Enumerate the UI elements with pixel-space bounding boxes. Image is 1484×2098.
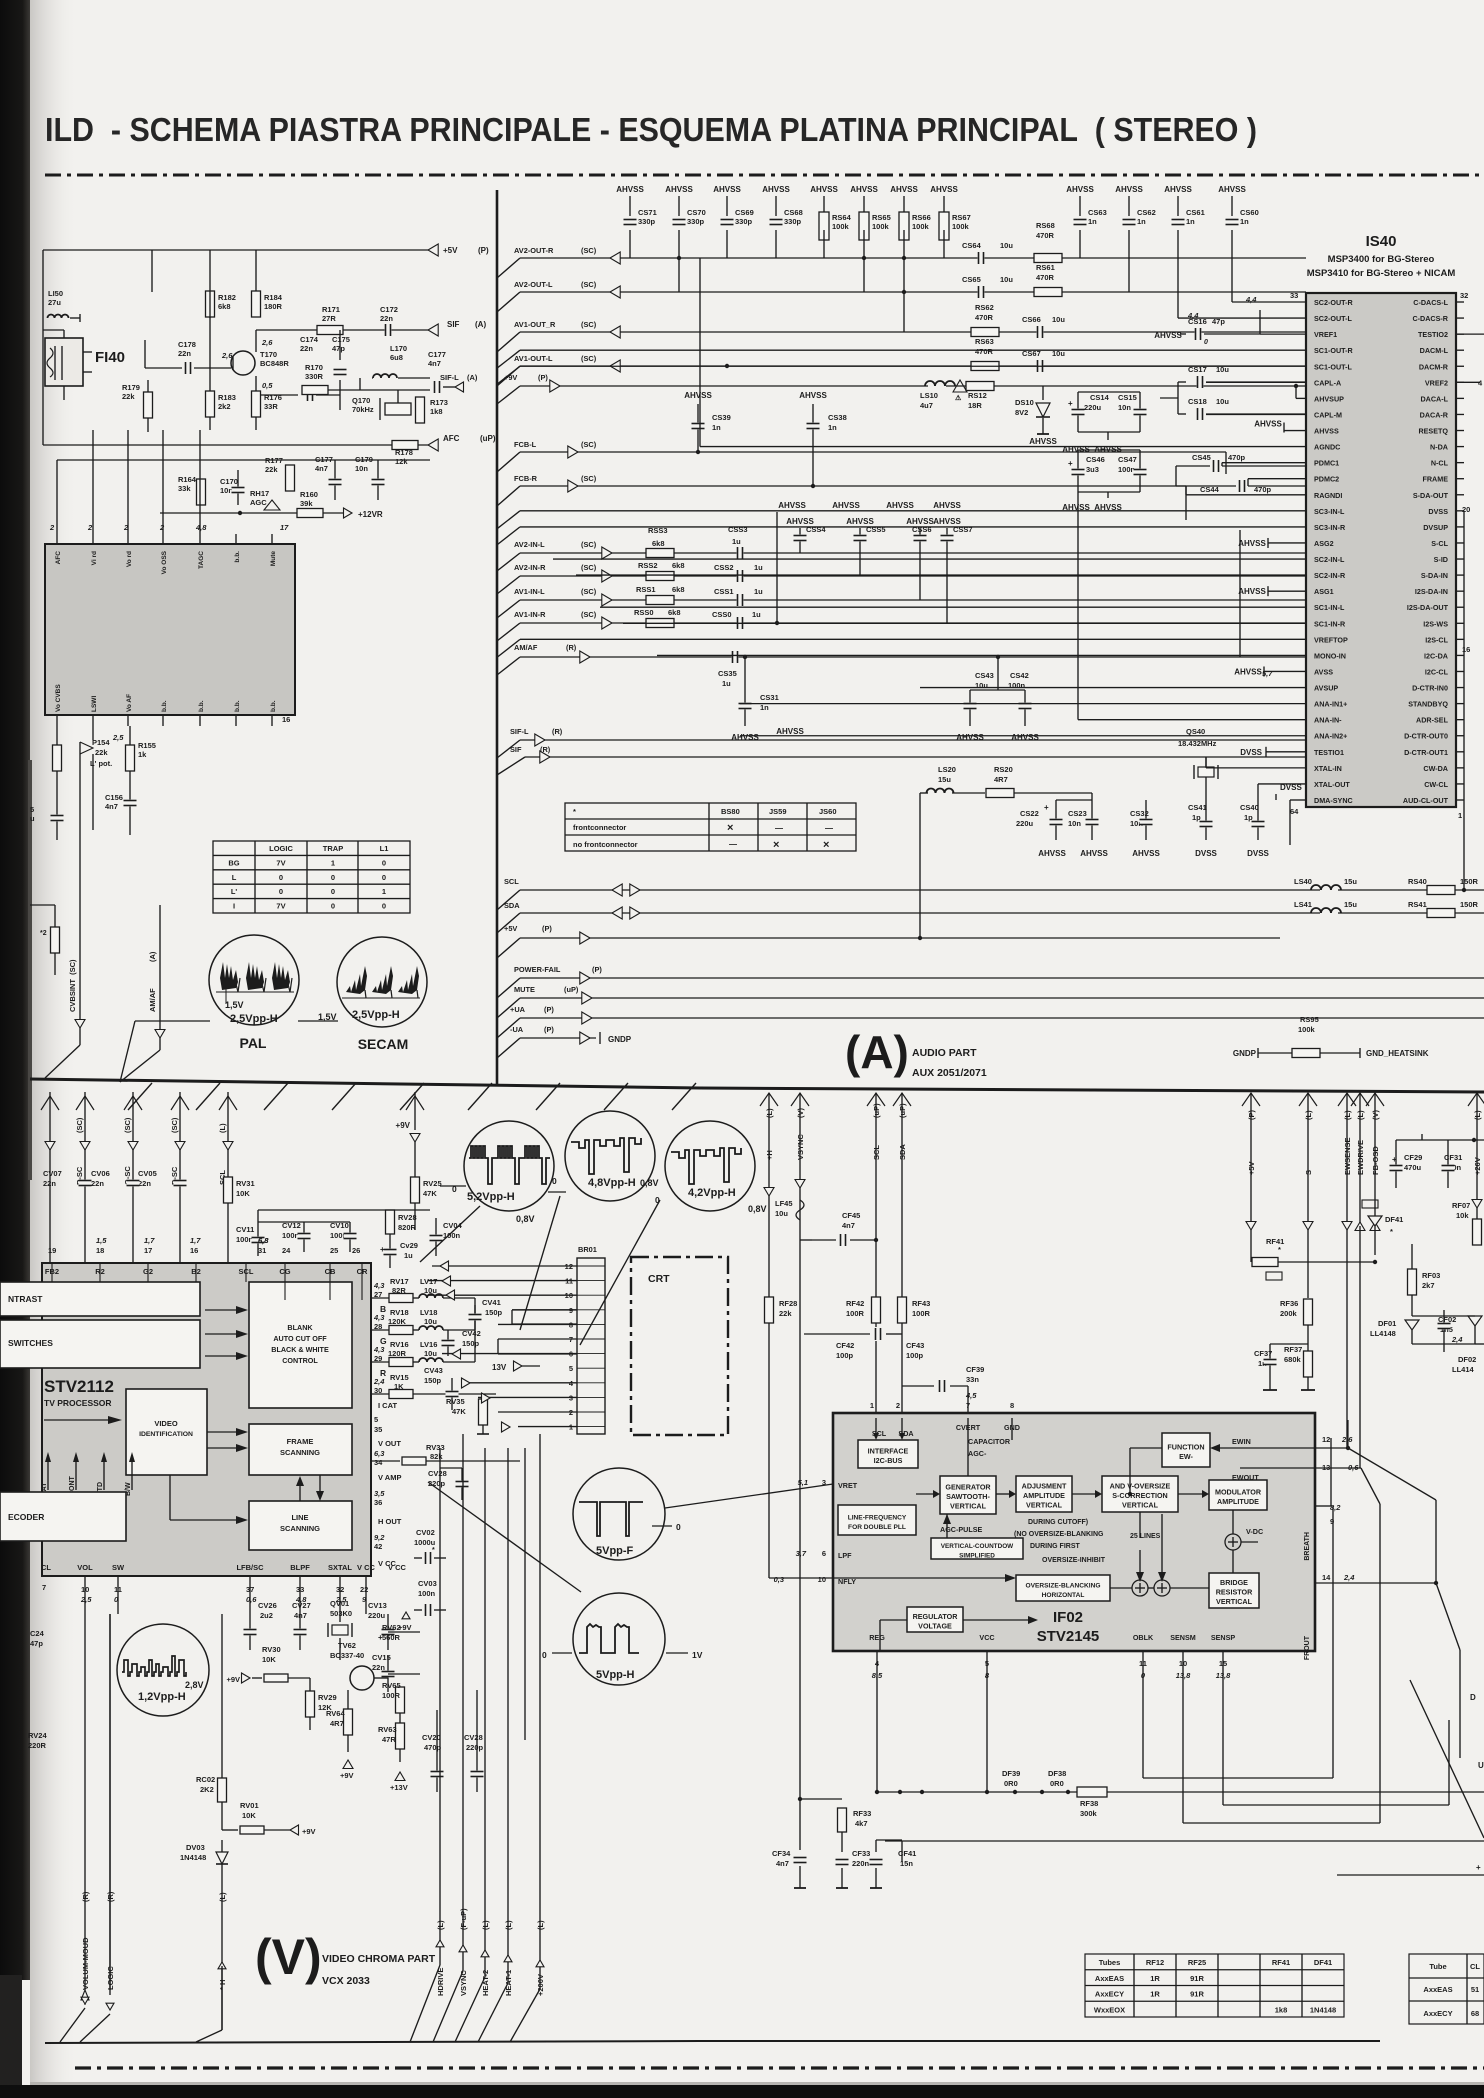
svg-text:STV2145: STV2145 [1037,1628,1100,1645]
svg-text:2,5: 2,5 [112,733,124,742]
svg-text:RV28: RV28 [398,1213,417,1222]
svg-text:SAWTOOTH-: SAWTOOTH- [946,1492,990,1501]
svg-text:47p: 47p [332,344,345,353]
svg-text:AHVSS: AHVSS [810,185,838,194]
svg-text:TRAP: TRAP [323,844,343,853]
svg-text:OBLK: OBLK [1133,1633,1154,1642]
svg-text:(SC): (SC) [581,540,597,549]
svg-text:L': L' [231,887,238,896]
svg-text:100k: 100k [1298,1025,1316,1034]
svg-text:EWOUT: EWOUT [1232,1473,1259,1482]
svg-text:HORIZONTAL: HORIZONTAL [1042,1592,1085,1599]
svg-text:(P): (P) [542,924,552,933]
svg-text:4,8Vpp-H: 4,8Vpp-H [588,1177,636,1189]
svg-text:+9V: +9V [340,1771,354,1780]
svg-text:220n: 220n [852,1859,870,1868]
svg-text:15u: 15u [1344,900,1357,909]
svg-text:AND V-OVERSIZE: AND V-OVERSIZE [1110,1482,1171,1491]
svg-text:AHVSS: AHVSS [1234,667,1262,676]
svg-text:*: * [1278,1245,1281,1254]
svg-text:I2S-CL: I2S-CL [1425,635,1448,644]
svg-text:CL: CL [1470,1962,1480,1971]
svg-text:CV28: CV28 [428,1469,447,1478]
svg-text:(F-uP): (F-uP) [459,1908,468,1930]
svg-text:AHVSS: AHVSS [616,185,644,194]
svg-text:+: + [380,1245,385,1254]
svg-text:1,7: 1,7 [190,1236,201,1245]
svg-text:C156: C156 [105,793,123,802]
svg-text:AHVSS: AHVSS [1218,185,1246,194]
svg-text:RF33: RF33 [853,1809,871,1818]
svg-text:3,7: 3,7 [796,1549,807,1558]
svg-text:10u: 10u [975,681,988,690]
svg-text:AHVSS: AHVSS [665,185,693,194]
svg-text:CS41: CS41 [1188,803,1207,812]
svg-text:470p: 470p [424,1743,442,1752]
svg-text:6,3: 6,3 [374,1449,385,1458]
svg-text:CS70: CS70 [687,208,706,217]
svg-text:0,3: 0,3 [774,1575,785,1584]
svg-text:*: * [573,807,576,816]
svg-text:Tubes: Tubes [1099,1958,1121,1967]
svg-text:22k: 22k [779,1309,792,1318]
svg-text:(uP): (uP) [564,985,579,994]
svg-text:DURING CUTOFF): DURING CUTOFF) [1028,1519,1088,1526]
svg-text:DACA-R: DACA-R [1420,410,1449,419]
svg-text:Tube: Tube [1429,1962,1446,1971]
svg-text:1,5V: 1,5V [225,1000,244,1010]
svg-text:22n: 22n [43,1179,56,1188]
svg-text:I2C-CL: I2C-CL [1425,667,1449,676]
svg-text:MONO-IN: MONO-IN [1314,651,1346,660]
svg-text:220p: 220p [466,1743,484,1752]
svg-text:1N4148: 1N4148 [180,1853,206,1862]
svg-text:AHVSS: AHVSS [1080,849,1108,858]
svg-text:10n: 10n [1118,403,1131,412]
svg-text:VREF2: VREF2 [1425,378,1448,387]
svg-text:SWITCHES: SWITCHES [8,1338,53,1348]
svg-text:470p: 470p [1228,453,1246,462]
svg-text:Vo rd: Vo rd [126,551,133,567]
svg-text:AHVSS: AHVSS [933,501,961,510]
svg-text:1k: 1k [138,750,147,759]
svg-text:RS66: RS66 [912,213,931,222]
svg-text:100n: 100n [1008,681,1026,690]
svg-text:7V: 7V [276,858,285,867]
svg-text:CS62: CS62 [1137,208,1156,217]
svg-text:1N4148: 1N4148 [1310,2005,1336,2014]
svg-text:(A): (A) [467,373,478,382]
svg-text:2,4: 2,4 [1343,1573,1355,1582]
svg-text:XTAL-IN: XTAL-IN [1314,764,1342,773]
svg-text:VCC: VCC [979,1633,994,1642]
svg-text:S-CL: S-CL [1431,539,1448,548]
svg-text:2,6: 2,6 [221,351,233,360]
svg-text:CV42: CV42 [462,1329,481,1338]
svg-text:AHVSS: AHVSS [890,185,918,194]
svg-text:—: — [825,824,833,833]
svg-text:VIDEO CHROMA PART: VIDEO CHROMA PART [322,1953,436,1965]
svg-text:330p: 330p [687,217,705,226]
svg-text:(V): (V) [255,1929,322,1985]
svg-text:VOL: VOL [77,1563,93,1572]
svg-text:42: 42 [374,1542,382,1551]
svg-text:2,6: 2,6 [261,338,273,347]
svg-text:100n: 100n [282,1231,300,1240]
svg-text:34: 34 [374,1458,383,1467]
svg-text:(A): (A) [475,320,486,329]
svg-text:CS69: CS69 [735,208,754,217]
svg-text:BC848R: BC848R [260,359,289,368]
svg-text:+9V: +9V [302,1827,316,1836]
svg-text:Cv29: Cv29 [400,1241,418,1250]
svg-text:CS64: CS64 [962,241,982,250]
svg-text:22n: 22n [91,1179,104,1188]
svg-text:N-DA: N-DA [1430,443,1448,452]
svg-text:1k8: 1k8 [430,407,443,416]
svg-text:150R: 150R [1460,900,1479,909]
svg-text:150p: 150p [485,1308,503,1317]
svg-text:TESTIO1: TESTIO1 [1314,748,1344,757]
svg-text:u: u [30,814,35,823]
svg-text:LPF: LPF [838,1551,852,1560]
svg-text:C174: C174 [300,335,319,344]
svg-text:RSS1: RSS1 [636,585,656,594]
svg-text:LFB/SC: LFB/SC [236,1563,264,1572]
svg-text:2k2: 2k2 [218,402,231,411]
svg-text:GNDP: GNDP [1233,1049,1257,1058]
svg-text:100R: 100R [382,1691,401,1700]
svg-text:MSP3410 for BG-Stereo + NICAM: MSP3410 for BG-Stereo + NICAM [1307,268,1456,279]
svg-text:1,5: 1,5 [96,1236,107,1245]
svg-text:0,8V: 0,8V [516,1214,535,1224]
svg-text:6,8: 6,8 [258,1236,269,1245]
svg-text:1R: 1R [1150,1974,1160,1983]
svg-text:RV62: RV62 [382,1623,401,1632]
svg-text:1: 1 [331,858,335,867]
svg-text:DF02: DF02 [1458,1355,1476,1364]
svg-text:1n: 1n [1088,217,1097,226]
svg-text:DVSUP: DVSUP [1423,523,1448,532]
svg-text:VIDEO: VIDEO [154,1419,178,1428]
svg-text:AV1-OUT-L: AV1-OUT-L [514,354,553,363]
svg-text:LI50: LI50 [48,289,63,298]
svg-text:4R7: 4R7 [994,775,1008,784]
svg-text:CS14: CS14 [1090,393,1110,402]
svg-text:(L): (L) [481,1920,490,1930]
svg-text:4n7: 4n7 [428,359,441,368]
svg-text:100k: 100k [912,222,930,231]
svg-text:STANDBYQ: STANDBYQ [1408,700,1448,709]
svg-text:CS65: CS65 [962,275,981,284]
svg-text:RAGNDI: RAGNDI [1314,491,1342,500]
svg-text:0: 0 [382,873,386,882]
svg-text:RF07: RF07 [1452,1201,1470,1210]
svg-text:RV63: RV63 [378,1725,397,1734]
svg-text:CV07: CV07 [43,1169,62,1178]
svg-text:70kHz: 70kHz [352,405,374,414]
svg-text:0: 0 [542,1650,547,1660]
svg-text:AGC-: AGC- [968,1449,987,1458]
svg-text:470u: 470u [1404,1163,1422,1172]
svg-text:0: 0 [331,873,335,882]
svg-text:VOLUM-MOUD: VOLUM-MOUD [81,1937,90,1990]
svg-text:0,8V: 0,8V [748,1204,767,1214]
svg-text:T170: T170 [260,350,277,359]
svg-text:L1: L1 [380,844,389,853]
svg-text:CS18: CS18 [1188,397,1207,406]
svg-text:AHVSS: AHVSS [1238,587,1266,596]
svg-text:AHVSS: AHVSS [1066,185,1094,194]
svg-text:I2S-WS: I2S-WS [1423,619,1448,628]
svg-text:CS63: CS63 [1088,208,1107,217]
svg-text:0: 0 [552,1176,557,1186]
svg-text:AUTO CUT OFF: AUTO CUT OFF [273,1334,327,1343]
svg-text:25 LINES: 25 LINES [1130,1533,1161,1540]
svg-text:AHVSS: AHVSS [1164,185,1192,194]
svg-text:CF29: CF29 [1404,1153,1422,1162]
svg-text:5: 5 [374,1415,378,1424]
svg-text:R176: R176 [264,393,282,402]
svg-text:AHVSS: AHVSS [1254,420,1282,429]
svg-text:0: 0 [279,887,283,896]
svg-text:2,5Vpp-H: 2,5Vpp-H [352,1009,400,1021]
svg-text:5,1: 5,1 [798,1478,808,1487]
svg-text:AHVSS: AHVSS [1038,849,1066,858]
svg-text:1u: 1u [722,679,731,688]
svg-text:CF42: CF42 [836,1341,854,1350]
svg-text:C-DACS-R: C-DACS-R [1412,314,1448,323]
svg-text:CSS0: CSS0 [712,610,732,619]
svg-text:AV1-OUT_R: AV1-OUT_R [514,320,556,329]
svg-text:DURING FIRST: DURING FIRST [1030,1543,1081,1550]
svg-text:*: * [1390,1227,1393,1236]
svg-text:C178: C178 [178,340,196,349]
svg-text:Vo CVBS: Vo CVBS [55,684,62,712]
svg-text:WxxEOX: WxxEOX [1094,2005,1125,2014]
svg-text:MODULATOR: MODULATOR [1215,1487,1262,1496]
svg-text:RV30: RV30 [262,1645,281,1654]
svg-text:2k7: 2k7 [1422,1281,1435,1290]
svg-text:RS41: RS41 [1408,900,1427,909]
svg-text:470R: 470R [975,313,994,322]
svg-text:-UA: -UA [510,1025,524,1034]
svg-text:XTAL-OUT: XTAL-OUT [1314,780,1350,789]
svg-text:SIF-L: SIF-L [510,727,529,736]
svg-text:AV2-OUT-R: AV2-OUT-R [514,246,554,255]
svg-text:10u: 10u [1216,397,1229,406]
svg-text:1n: 1n [828,423,837,432]
svg-text:6k8: 6k8 [672,561,685,570]
svg-text:(SC): (SC) [170,1117,179,1133]
svg-text:TESTIO2: TESTIO2 [1418,330,1448,339]
svg-text:DACM-R: DACM-R [1419,362,1449,371]
svg-text:×: × [727,822,733,834]
svg-text:RS61: RS61 [1036,263,1055,272]
svg-text:150p: 150p [424,1376,442,1385]
svg-text:BLPF: BLPF [290,1563,310,1572]
svg-text:1R: 1R [1150,1990,1160,1999]
svg-text:SCL: SCL [504,877,519,886]
svg-text:RV64: RV64 [326,1709,345,1718]
svg-text:JS60: JS60 [819,807,837,816]
svg-text:ECODER: ECODER [8,1512,44,1522]
svg-text:DV03: DV03 [186,1843,205,1852]
svg-text:91R: 91R [1190,1974,1204,1983]
svg-text:LV17: LV17 [420,1277,437,1286]
svg-text:RF25: RF25 [1188,1958,1206,1967]
svg-text:5: 5 [569,1364,573,1373]
svg-text:EW-: EW- [1179,1452,1193,1461]
svg-text:AHVSS: AHVSS [1029,437,1057,446]
svg-text:AVSUP: AVSUP [1314,684,1338,693]
svg-text:(R): (R) [566,643,577,652]
svg-text:CS47: CS47 [1118,455,1137,464]
svg-text:V CC: V CC [378,1559,397,1568]
svg-text:CS66: CS66 [1022,315,1041,324]
svg-text:100R: 100R [912,1309,931,1318]
svg-text:CV43: CV43 [424,1366,443,1375]
svg-text:R179: R179 [122,383,140,392]
svg-text:4,3: 4,3 [373,1313,385,1322]
svg-text:SC1-OUT-R: SC1-OUT-R [1314,346,1354,355]
svg-text:8: 8 [1010,1401,1014,1410]
svg-text:(SC): (SC) [123,1117,132,1133]
svg-text:4,3: 4,3 [373,1281,385,1290]
svg-text:22k: 22k [122,392,135,401]
svg-text:GND_HEATSINK: GND_HEATSINK [1366,1049,1429,1058]
svg-text:0,5: 0,5 [262,381,273,390]
svg-text:DF01: DF01 [1378,1319,1396,1328]
svg-text:ASG1: ASG1 [1314,587,1334,596]
svg-text:1u: 1u [732,537,741,546]
svg-text:REGULATOR: REGULATOR [913,1612,959,1621]
svg-text:H OUT: H OUT [378,1517,402,1526]
svg-text:HEAT-1: HEAT-1 [504,1970,513,1996]
svg-text:47R: 47R [382,1735,396,1744]
svg-text:4u7: 4u7 [920,401,933,410]
svg-text:10K: 10K [262,1655,276,1664]
svg-text:SC3-IN-L: SC3-IN-L [1314,507,1345,516]
svg-text:CV41: CV41 [482,1298,501,1307]
svg-text:SC2-OUT-L: SC2-OUT-L [1314,314,1353,323]
svg-text:I2C-BUS: I2C-BUS [874,1456,903,1465]
svg-text:VERTICAL: VERTICAL [950,1502,987,1511]
svg-text:+9V: +9V [226,1675,240,1684]
svg-text:DVSS: DVSS [1195,849,1217,858]
svg-text:CV26: CV26 [258,1601,277,1610]
svg-text:—: — [729,840,737,849]
svg-text:100k: 100k [832,222,850,231]
svg-text:DVSS: DVSS [1247,849,1269,858]
svg-text:BR01: BR01 [578,1245,597,1254]
svg-text:RS20: RS20 [994,765,1013,774]
svg-text:I2S-DA-IN: I2S-DA-IN [1415,587,1448,596]
svg-text:DS10: DS10 [1015,398,1034,407]
svg-text:S-DA-IN: S-DA-IN [1421,571,1448,580]
svg-text:SC1-IN-L: SC1-IN-L [1314,603,1345,612]
svg-text:DF41: DF41 [1314,1958,1332,1967]
svg-text:LV16: LV16 [420,1340,437,1349]
svg-text:LOGIC: LOGIC [269,844,293,853]
svg-text:0R0: 0R0 [1050,1779,1064,1788]
svg-text:S-ID: S-ID [1434,555,1448,564]
svg-text:IF02: IF02 [1053,1609,1083,1626]
svg-text:680k: 680k [1284,1355,1302,1364]
svg-text:4R7: 4R7 [330,1719,344,1728]
svg-text:18.432MHz: 18.432MHz [1178,739,1217,748]
svg-text:AxxEAS: AxxEAS [1095,1974,1124,1983]
svg-text:TV62: TV62 [338,1641,356,1650]
svg-text:100n: 100n [418,1589,436,1598]
svg-text:SW: SW [112,1563,125,1572]
svg-text:C24: C24 [30,1629,45,1638]
svg-text:QV01: QV01 [330,1599,349,1608]
svg-text:22n: 22n [380,314,393,323]
svg-text:FRAME: FRAME [1422,475,1448,484]
svg-text:13V: 13V [492,1363,507,1372]
svg-text:INTERFACE: INTERFACE [868,1446,909,1455]
svg-text:C177: C177 [428,350,446,359]
svg-text:FROUT: FROUT [1304,1635,1311,1660]
svg-text:22n: 22n [138,1179,151,1188]
svg-text:2,8V: 2,8V [185,1680,204,1690]
svg-text:CAPACITOR: CAPACITOR [968,1437,1011,1446]
svg-text:330p: 330p [784,217,802,226]
svg-text:RSS0: RSS0 [634,608,654,617]
svg-text:LL4148: LL4148 [1370,1329,1396,1338]
svg-text:RV65: RV65 [382,1681,401,1690]
svg-text:15u: 15u [1344,877,1357,886]
svg-text:(L): (L) [218,1892,227,1902]
svg-text:—: — [775,824,783,833]
svg-text:68: 68 [1471,2009,1479,2018]
svg-text:V AMP: V AMP [378,1473,401,1482]
svg-text:(L): (L) [504,1920,513,1930]
svg-text:RV25: RV25 [423,1179,442,1188]
svg-text:BC337-40: BC337-40 [330,1651,364,1660]
svg-text:1: 1 [382,887,386,896]
svg-text:CS23: CS23 [1068,809,1087,818]
svg-text:AV1-IN-L: AV1-IN-L [514,587,545,596]
svg-text:DACA-L: DACA-L [1420,394,1448,403]
svg-text:10n: 10n [1068,819,1081,828]
svg-text:220u: 220u [1084,403,1102,412]
svg-text:Vo OSS: Vo OSS [161,550,168,574]
svg-text:AxxEAS: AxxEAS [1423,1985,1452,1994]
svg-text:CS39: CS39 [712,413,731,422]
svg-text:RS62: RS62 [975,303,994,312]
svg-text:CS31: CS31 [760,693,779,702]
svg-text:CF41: CF41 [898,1849,916,1858]
svg-text:300k: 300k [1080,1809,1098,1818]
svg-text:I2C-DA: I2C-DA [1424,651,1448,660]
svg-text:5,2Vpp-H: 5,2Vpp-H [467,1191,515,1203]
svg-text:18R: 18R [968,401,982,410]
svg-text:7V: 7V [276,902,285,911]
svg-text:10u: 10u [424,1286,437,1295]
svg-text:1n: 1n [760,703,769,712]
svg-text:470R: 470R [1036,231,1055,240]
svg-text:820R: 820R [398,1223,417,1232]
svg-text:RF41: RF41 [1272,1958,1290,1967]
svg-text:1k8: 1k8 [1275,2005,1288,2014]
svg-text:CW-DA: CW-DA [1423,764,1448,773]
svg-text:82k: 82k [430,1452,443,1461]
svg-text:POWER-FAIL: POWER-FAIL [514,965,561,974]
svg-text:CRT: CRT [648,1273,670,1285]
svg-text:CS15: CS15 [1118,393,1137,402]
